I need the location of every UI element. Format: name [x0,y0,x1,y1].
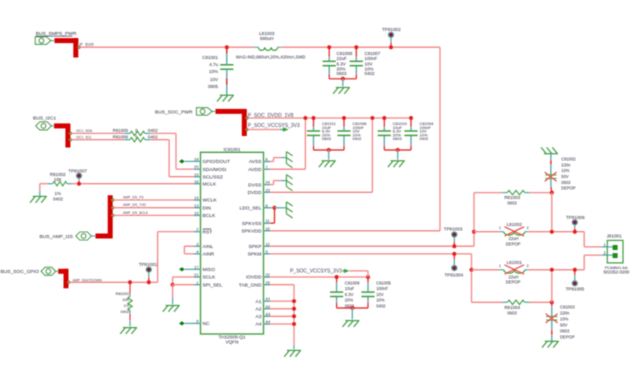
svg-text:R81003: R81003 [504,195,520,200]
svg-text:BUS_SOC_PWR: BUS_SOC_PWR [155,109,193,115]
svg-text:SPKP: SPKP [248,244,261,250]
svg-text:TP81004: TP81004 [445,272,464,277]
svg-text:A1: A1 [256,299,262,305]
svg-text:C81005: C81005 [376,280,391,285]
svg-text:SCLK: SCLK [203,275,217,281]
svg-text:SPKM: SPKM [248,252,262,258]
svg-text:0402: 0402 [365,71,376,76]
svg-text:TP81002: TP81002 [382,27,401,32]
svg-text:MAG-IND,680uH,20%,420mA,SMD: MAG-IND,680uH,20%,420mA,SMD [236,54,305,59]
svg-text:0402: 0402 [53,197,64,202]
svg-text:50V: 50V [561,174,569,179]
svg-text:AMP_I2S_FS: AMP_I2S_FS [123,196,144,200]
svg-text:2: 2 [196,227,198,232]
svg-text:NC: NC [203,321,211,327]
svg-text:11: 11 [266,218,270,223]
svg-text:22uH: 22uH [508,236,518,241]
svg-text:0603: 0603 [507,310,517,315]
svg-text:SPKVDD: SPKVDD [241,229,262,235]
svg-text:DEPOP: DEPOP [561,186,576,191]
svg-text:10%: 10% [561,168,570,173]
svg-text:R81002: R81002 [50,172,66,177]
svg-text:A4: A4 [256,322,262,328]
svg-text:P_SOC_VCCSYS_3V3: P_SOC_VCCSYS_3V3 [248,123,300,129]
svg-text:0603: 0603 [561,180,571,185]
svg-text:GPIO/DOUT: GPIO/DOUT [203,159,230,165]
svg-text:IC81001: IC81001 [223,147,241,152]
svg-text:IOVDD: IOVDD [246,275,262,281]
svg-text:I2C1_SDA: I2C1_SDA [76,129,93,133]
svg-text:220n: 220n [561,162,571,167]
svg-text:0402: 0402 [121,309,130,314]
svg-text:10uF: 10uF [345,286,355,291]
svg-text:TP81005: TP81005 [566,286,585,291]
svg-text:8: 8 [266,203,268,208]
svg-text:C81001: C81001 [202,55,218,60]
svg-text:R81006: R81006 [113,135,129,140]
svg-text:TAB_GND: TAB_GND [239,282,262,288]
svg-text:R81001: R81001 [116,291,130,296]
svg-text:LDO_SEL: LDO_SEL [239,206,261,212]
svg-text:TP81006: TP81006 [566,215,585,220]
svg-text:2: 2 [527,264,529,268]
svg-text:R81005: R81005 [113,128,129,133]
svg-text:0603: 0603 [560,328,570,333]
svg-text:50V: 50V [560,322,568,327]
svg-text:10V: 10V [376,292,384,297]
svg-text:TP81003: TP81003 [444,226,463,231]
svg-text:DVDD: DVDD [248,190,262,196]
svg-text:SPKVSS: SPKVSS [242,221,262,227]
svg-text:10%: 10% [376,298,385,303]
svg-text:0603: 0603 [322,136,332,141]
svg-text:2: 2 [527,226,529,230]
svg-text:100nF: 100nF [376,286,388,291]
svg-text:DEPOP: DEPOP [506,280,521,285]
svg-text:AMP_I2S_TXD: AMP_I2S_TXD [123,203,147,207]
svg-text:0402: 0402 [148,135,158,140]
svg-text:0402: 0402 [148,128,158,133]
svg-text:1: 1 [499,264,501,268]
svg-text:0402: 0402 [420,136,430,141]
svg-text:20%: 20% [345,298,354,303]
svg-text:0402: 0402 [376,303,386,308]
svg-text:L81002: L81002 [507,222,523,227]
svg-text:1%: 1% [124,303,130,308]
svg-text:AVDD: AVDD [248,167,262,173]
svg-text:DVSS: DVSS [248,182,262,188]
svg-text:0805: 0805 [208,84,219,89]
svg-text:0603: 0603 [507,201,517,206]
svg-text:C81002: C81002 [561,156,576,161]
svg-text:I2C1_SCL: I2C1_SCL [76,135,92,139]
svg-text:220n: 220n [560,310,570,315]
svg-text:AINR: AINR [203,252,215,258]
svg-text:AVSS: AVSS [249,159,262,165]
svg-text:25: 25 [266,280,270,285]
svg-text:BUS_I2C1: BUS_I2C1 [33,116,56,122]
svg-text:10V: 10V [210,77,218,82]
svg-text:6.3V: 6.3V [345,292,354,297]
svg-text:4.7u: 4.7u [209,62,218,67]
svg-text:VQFN: VQFN [225,340,238,345]
svg-text:0603: 0603 [393,136,403,141]
svg-text:SPI_SEL: SPI_SEL [203,282,223,288]
svg-text:502352-0200: 502352-0200 [603,270,629,275]
svg-text:DIN: DIN [203,205,212,211]
svg-text:J81001: J81001 [607,234,623,239]
svg-text:TP81001: TP81001 [139,262,158,267]
svg-text:P_5V0: P_5V0 [80,42,94,47]
svg-text:10K: 10K [54,177,62,182]
svg-text:10K: 10K [122,297,129,302]
svg-text:22uH: 22uH [508,274,518,279]
svg-text:23: 23 [266,187,270,192]
svg-text:BUS_AMP_I2S: BUS_AMP_I2S [40,234,74,240]
svg-text:C81009: C81009 [345,280,360,285]
svg-text:680uH: 680uH [260,36,274,41]
svg-text:10%: 10% [560,316,569,321]
svg-text:0603: 0603 [337,71,348,76]
svg-text:10%: 10% [209,69,218,74]
svg-text:DEPOP: DEPOP [506,241,521,246]
svg-text:SDA/MOSI: SDA/MOSI [203,167,227,173]
svg-text:R81004: R81004 [504,305,520,310]
svg-text:BUS_SOC_GPIO: BUS_SOC_GPIO [1,269,40,275]
svg-text:MISO: MISO [203,267,216,273]
svg-text:1%: 1% [55,191,62,196]
svg-text:BCLK: BCLK [203,213,217,219]
svg-text:SCL/SSZ: SCL/SSZ [203,174,223,180]
svg-text:MCLK: MCLK [203,181,217,187]
svg-text:AINL: AINL [203,244,214,250]
svg-text:1: 1 [499,226,501,230]
svg-text:L81001: L81001 [507,260,523,265]
svg-text:1: 1 [196,280,198,285]
svg-text:A2: A2 [256,307,262,313]
svg-text:P_SOC_VCCSYS_3V3: P_SOC_VCCSYS_3V3 [290,268,342,274]
svg-text:RST: RST [203,229,213,235]
svg-text:WCLK: WCLK [203,198,218,204]
svg-text:0402: 0402 [353,136,363,141]
svg-text:C81003: C81003 [560,304,575,309]
svg-text:DEPOP: DEPOP [560,334,575,339]
svg-text:A3: A3 [256,314,262,320]
svg-text:AMP_I2S_BCLK: AMP_I2S_BCLK [123,211,149,215]
